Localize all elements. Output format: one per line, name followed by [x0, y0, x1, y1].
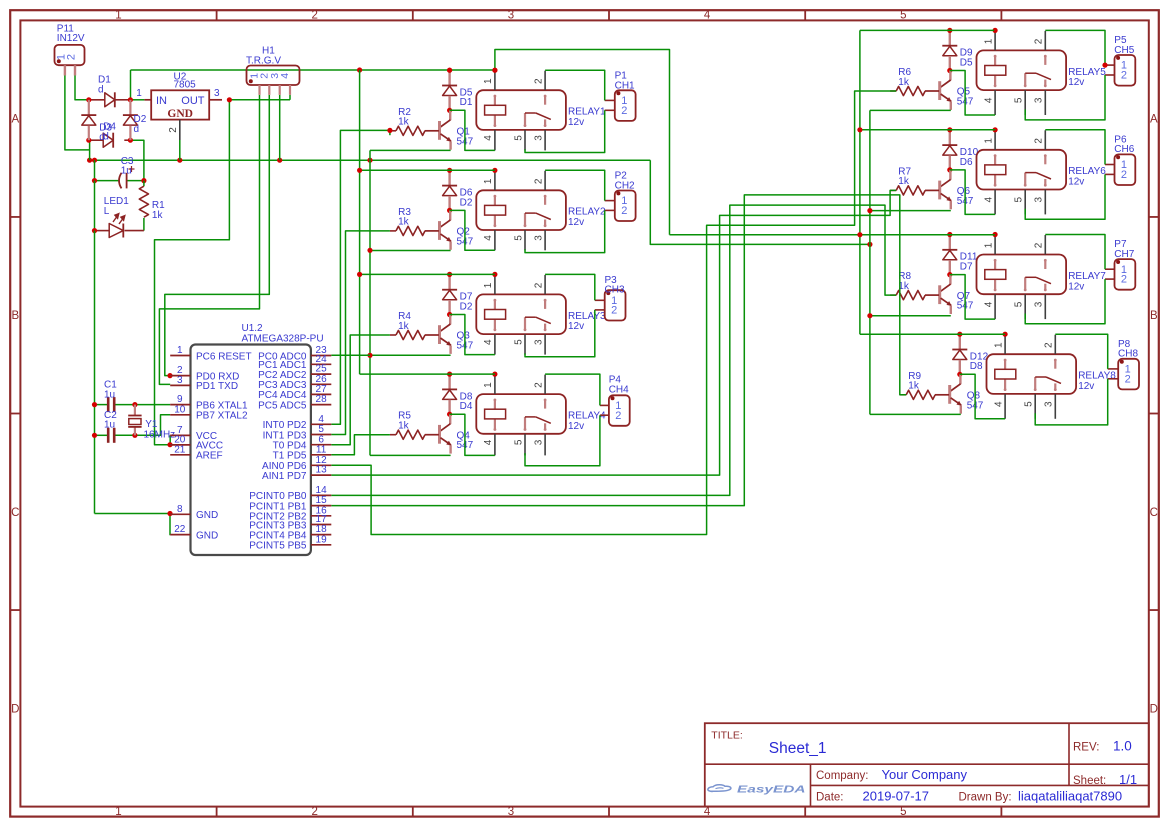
svg-text:D: D [11, 703, 19, 715]
svg-text:PCINT5 PB5: PCINT5 PB5 [249, 541, 307, 552]
svg-text:3: 3 [214, 88, 220, 99]
svg-text:D2: D2 [460, 301, 473, 312]
svg-text:Your Company: Your Company [882, 767, 968, 782]
svg-text:28: 28 [316, 394, 328, 405]
svg-text:RELAY3: RELAY3 [568, 311, 606, 322]
svg-text:1u: 1u [104, 420, 115, 431]
svg-text:8: 8 [177, 504, 183, 515]
svg-text:1: 1 [983, 242, 994, 248]
svg-text:1k: 1k [908, 381, 920, 392]
svg-text:2: 2 [533, 78, 544, 84]
svg-text:L: L [104, 206, 110, 217]
svg-text:RELAY1: RELAY1 [568, 107, 606, 118]
svg-text:4: 4 [983, 197, 994, 203]
svg-text:PC5 ADC5: PC5 ADC5 [258, 400, 307, 411]
svg-text:IN12V: IN12V [57, 33, 85, 44]
svg-text:2: 2 [1121, 274, 1127, 286]
svg-text:2: 2 [1034, 138, 1045, 144]
svg-text:1: 1 [115, 10, 121, 22]
svg-text:5: 5 [1014, 97, 1025, 103]
svg-text:Sheet:: Sheet: [1073, 775, 1106, 787]
svg-text:19: 19 [316, 534, 328, 545]
svg-text:12v: 12v [1068, 281, 1084, 292]
svg-text:CH8: CH8 [1118, 349, 1138, 360]
svg-text:5: 5 [900, 10, 906, 22]
svg-text:D: D [1150, 703, 1158, 715]
svg-text:C: C [1150, 507, 1158, 519]
svg-text:5: 5 [1024, 401, 1035, 407]
svg-text:B: B [1150, 310, 1158, 322]
svg-text:2: 2 [1121, 70, 1127, 82]
svg-text:2: 2 [611, 305, 617, 317]
svg-text:1: 1 [983, 38, 994, 44]
svg-text:1k: 1k [398, 421, 410, 432]
svg-text:12v: 12v [1068, 77, 1084, 88]
svg-text:12v: 12v [568, 421, 584, 432]
svg-text:Company:: Company: [816, 770, 868, 782]
svg-text:3: 3 [1034, 301, 1045, 307]
svg-text:2: 2 [1044, 342, 1055, 348]
svg-text:4: 4 [983, 301, 994, 307]
svg-text:D4: D4 [460, 401, 473, 412]
svg-text:RELAY7: RELAY7 [1068, 271, 1106, 282]
svg-text:REV:: REV: [1073, 742, 1099, 754]
svg-text:EasyEDA: EasyEDA [737, 784, 806, 795]
svg-text:1k: 1k [898, 176, 910, 187]
svg-text:2: 2 [311, 806, 317, 818]
svg-text:4: 4 [483, 339, 494, 345]
svg-text:3: 3 [177, 375, 183, 386]
svg-text:TITLE:: TITLE: [711, 730, 743, 742]
svg-text:GND: GND [196, 510, 218, 521]
svg-text:RELAY8: RELAY8 [1078, 371, 1116, 382]
svg-text:2: 2 [66, 54, 78, 60]
svg-text:1: 1 [983, 138, 994, 144]
svg-text:2: 2 [168, 127, 179, 133]
svg-text:3: 3 [1034, 97, 1045, 103]
svg-text:11: 11 [316, 444, 327, 455]
svg-text:Date:: Date: [816, 791, 844, 803]
svg-text:1k: 1k [898, 77, 910, 88]
svg-text:1: 1 [483, 382, 494, 388]
svg-text:3: 3 [508, 10, 514, 22]
svg-text:7805: 7805 [174, 79, 197, 90]
svg-text:2: 2 [1121, 169, 1127, 181]
svg-text:5: 5 [1014, 197, 1025, 203]
svg-text:1k: 1k [398, 117, 410, 128]
svg-text:1u: 1u [121, 165, 132, 176]
svg-text:10: 10 [174, 404, 186, 415]
svg-text:CH4: CH4 [609, 384, 629, 395]
svg-text:A: A [1150, 114, 1158, 126]
svg-text:PB7 XTAL2: PB7 XTAL2 [196, 411, 248, 422]
svg-text:D5: D5 [960, 57, 973, 68]
svg-text:4: 4 [483, 135, 494, 141]
svg-text:B: B [11, 310, 19, 322]
svg-text:12v: 12v [1078, 381, 1094, 392]
svg-text:1: 1 [483, 78, 494, 84]
svg-text:AREF: AREF [196, 451, 223, 462]
svg-text:3: 3 [1044, 401, 1055, 407]
svg-text:CH6: CH6 [1114, 144, 1134, 155]
svg-text:D2: D2 [460, 197, 473, 208]
svg-text:4: 4 [993, 401, 1004, 407]
svg-text:1/1: 1/1 [1119, 772, 1137, 787]
svg-text:2: 2 [533, 178, 544, 184]
svg-text:CH3: CH3 [605, 285, 625, 296]
svg-text:2: 2 [311, 10, 317, 22]
svg-text:RELAY2: RELAY2 [568, 207, 606, 218]
svg-text:1u: 1u [104, 389, 115, 400]
svg-text:ATMEGA328P-PU: ATMEGA328P-PU [242, 333, 324, 344]
svg-text:3: 3 [533, 135, 544, 141]
svg-text:PC6 RESET: PC6 RESET [196, 351, 252, 362]
svg-text:CH5: CH5 [1114, 45, 1134, 56]
svg-text:1: 1 [115, 806, 121, 818]
svg-text:D6: D6 [960, 157, 973, 168]
svg-text:5: 5 [900, 806, 906, 818]
svg-text:d: d [134, 124, 140, 135]
svg-text:4: 4 [704, 10, 711, 22]
svg-text:3: 3 [508, 806, 514, 818]
svg-text:CH7: CH7 [1114, 249, 1134, 260]
svg-text:2: 2 [621, 105, 627, 117]
svg-text:C: C [11, 507, 19, 519]
svg-text:5: 5 [513, 339, 524, 345]
svg-text:GND: GND [167, 108, 193, 120]
svg-text:T1 PD5: T1 PD5 [273, 451, 307, 462]
svg-text:D7: D7 [960, 262, 973, 273]
svg-text:5: 5 [513, 439, 524, 445]
svg-text:13: 13 [316, 465, 328, 476]
svg-text:2: 2 [533, 382, 544, 388]
svg-text:12v: 12v [568, 321, 584, 332]
svg-text:1: 1 [136, 88, 142, 99]
svg-text:d: d [98, 84, 104, 95]
svg-text:12v: 12v [1068, 177, 1084, 188]
svg-text:4: 4 [483, 439, 494, 445]
svg-text:d: d [103, 132, 109, 143]
svg-text:4: 4 [983, 97, 994, 103]
svg-text:D1: D1 [460, 97, 473, 108]
svg-text:5: 5 [1014, 301, 1025, 307]
svg-text:22: 22 [174, 524, 186, 535]
svg-text:3: 3 [533, 339, 544, 345]
svg-text:2: 2 [1034, 242, 1045, 248]
svg-text:D8: D8 [970, 361, 983, 372]
svg-text:5: 5 [513, 135, 524, 141]
svg-text:AIN1 PD7: AIN1 PD7 [262, 471, 307, 482]
svg-text:2: 2 [533, 282, 544, 288]
svg-text:GND: GND [196, 530, 218, 541]
svg-text:5: 5 [513, 235, 524, 241]
svg-text:12v: 12v [568, 117, 584, 128]
svg-text:liaqataliliaqat7890: liaqataliliaqat7890 [1018, 788, 1122, 803]
svg-text:IN: IN [156, 95, 167, 107]
svg-text:2: 2 [1125, 373, 1131, 385]
svg-text:1: 1 [483, 178, 494, 184]
svg-text:21: 21 [174, 444, 186, 455]
svg-text:1k: 1k [398, 217, 410, 228]
svg-text:1k: 1k [152, 210, 164, 221]
svg-text:4: 4 [483, 235, 494, 241]
svg-text:T.R.G.V: T.R.G.V [246, 55, 281, 66]
svg-text:2: 2 [1034, 38, 1045, 44]
svg-text:2: 2 [615, 410, 621, 422]
svg-text:Drawn By:: Drawn By: [959, 791, 1012, 803]
svg-text:A: A [11, 114, 19, 126]
svg-text:PD1 TXD: PD1 TXD [196, 381, 238, 392]
svg-text:CH1: CH1 [615, 80, 635, 91]
svg-text:12v: 12v [568, 217, 584, 228]
svg-text:3: 3 [533, 439, 544, 445]
svg-text:1.0: 1.0 [1113, 739, 1132, 754]
svg-text:3: 3 [533, 235, 544, 241]
svg-text:2: 2 [621, 205, 627, 217]
svg-text:1: 1 [483, 282, 494, 288]
svg-text:RELAY6: RELAY6 [1068, 166, 1106, 177]
svg-text:2019-07-17: 2019-07-17 [863, 788, 930, 803]
svg-text:4: 4 [279, 73, 291, 79]
svg-text:CH2: CH2 [615, 181, 635, 192]
svg-text:1: 1 [177, 345, 183, 356]
svg-text:3: 3 [1034, 197, 1045, 203]
svg-text:Sheet_1: Sheet_1 [769, 740, 827, 757]
svg-text:1: 1 [993, 342, 1004, 348]
svg-text:RELAY5: RELAY5 [1068, 67, 1106, 78]
svg-text:1k: 1k [398, 321, 410, 332]
svg-text:4: 4 [704, 806, 711, 818]
svg-text:OUT: OUT [181, 95, 205, 107]
